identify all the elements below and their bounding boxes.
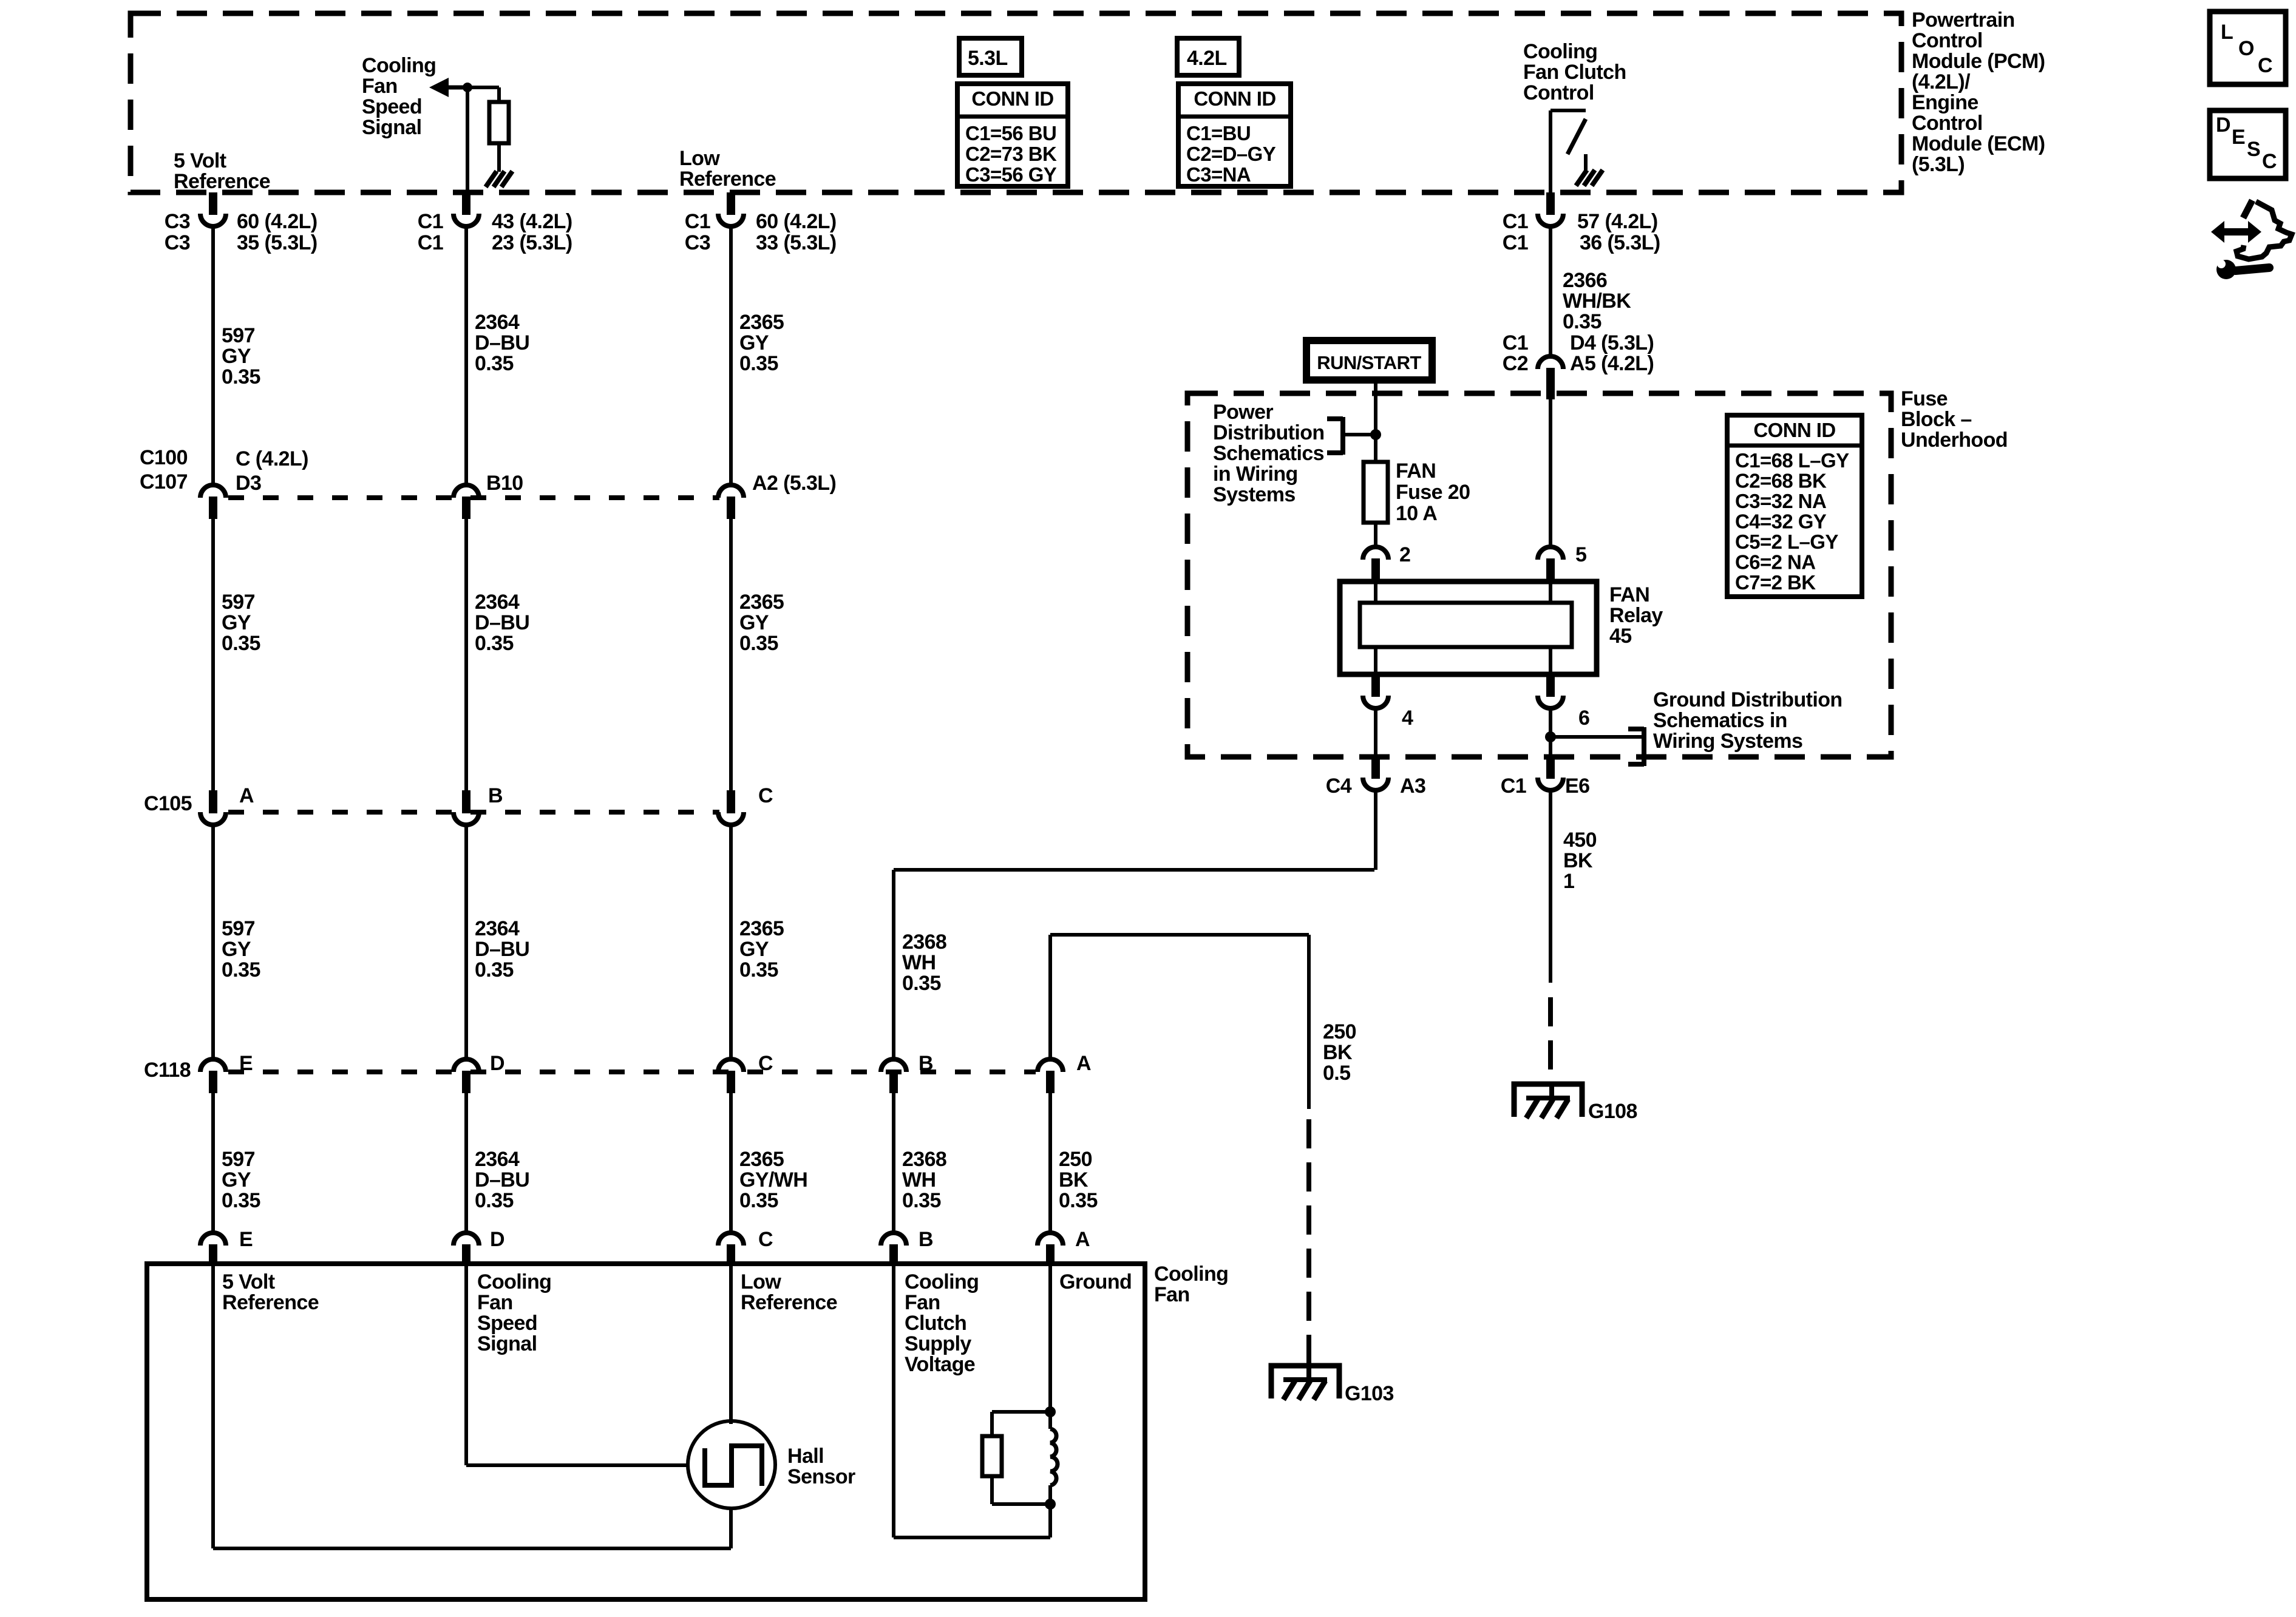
svg-text:Cooling: Cooling xyxy=(362,54,436,77)
wire 597 GY segment 3 xyxy=(211,825,215,1059)
5.3L tag box xyxy=(959,38,1022,75)
svg-text:2364: 2364 xyxy=(475,591,520,614)
svg-text:2365: 2365 xyxy=(739,591,784,614)
connector C1 pin E6 xyxy=(1546,757,1555,779)
connector C1/C3 (low ref at PCM) xyxy=(727,192,735,215)
resistor (pull-up) in PCM xyxy=(467,87,509,172)
svg-text:O: O xyxy=(2238,37,2254,60)
svg-text:Fan: Fan xyxy=(362,75,398,98)
svg-text:A5 (4.2L): A5 (4.2L) xyxy=(1570,352,1654,375)
svg-text:A2 (5.3L): A2 (5.3L) xyxy=(752,472,836,495)
labels C100 C107 C(4.2L) D3 xyxy=(140,446,308,495)
svg-text:C3=NA: C3=NA xyxy=(1186,163,1251,186)
svg-text:BK: BK xyxy=(1563,849,1593,872)
svg-text:WH/BK: WH/BK xyxy=(1563,290,1631,313)
svg-text:Reference: Reference xyxy=(741,1291,837,1314)
svg-text:2364: 2364 xyxy=(475,311,520,334)
wire label 2364 D-BU 0.35 (3) xyxy=(475,917,529,981)
svg-text:GY: GY xyxy=(739,611,769,634)
svg-text:Signal: Signal xyxy=(362,116,421,139)
svg-text:BK: BK xyxy=(1323,1041,1353,1064)
svg-text:C1: C1 xyxy=(418,210,443,233)
svg-text:0.35: 0.35 xyxy=(902,1189,941,1212)
wire 597 GY segment 1 xyxy=(211,227,215,484)
svg-text:D–BU: D–BU xyxy=(475,1168,529,1192)
label Hall Sensor xyxy=(787,1445,855,1488)
svg-text:Module (ECM): Module (ECM) xyxy=(1912,132,2045,155)
svg-text:GY/WH: GY/WH xyxy=(739,1168,807,1192)
label FAN Fuse 20 10 A xyxy=(1396,459,1470,525)
svg-text:5: 5 xyxy=(1575,543,1586,566)
svg-text:G103: G103 xyxy=(1345,1382,1394,1405)
svg-text:Fuse: Fuse xyxy=(1901,387,1948,410)
svg-text:GY: GY xyxy=(222,611,251,634)
svg-text:C3=32 NA: C3=32 NA xyxy=(1735,490,1826,512)
labels C4 A3 xyxy=(1326,775,1426,798)
hall sensor xyxy=(688,1421,775,1508)
wire label 2364 D-BU 0.35 (4) xyxy=(475,1148,529,1212)
svg-text:45: 45 xyxy=(1609,625,1632,648)
svg-text:C1: C1 xyxy=(1503,331,1528,354)
svg-text:C1: C1 xyxy=(418,231,443,254)
label Ground Distribution Schematics in Wiring Systems xyxy=(1653,688,1843,753)
svg-text:WH: WH xyxy=(902,951,936,974)
connector C3 (5V ref at PCM) xyxy=(209,192,217,215)
svg-text:2368: 2368 xyxy=(902,1148,946,1171)
connector cooling fan pin A xyxy=(1038,1233,1063,1246)
svg-text:C1=56 BU: C1=56 BU xyxy=(965,122,1056,144)
label Cooling Fan Speed Signal (fan) xyxy=(477,1270,551,1355)
labels C105 A xyxy=(144,784,254,815)
svg-text:4: 4 xyxy=(1402,707,1413,730)
wire 2365 segment 2 xyxy=(729,518,733,792)
svg-text:C1: C1 xyxy=(685,210,710,233)
wire hall sensor to 5V return xyxy=(729,1508,733,1548)
connector C118 pin A xyxy=(1038,1059,1063,1072)
wire label 2368 WH 0.35 (upper) xyxy=(902,931,946,995)
svg-text:0.5: 0.5 xyxy=(1323,1062,1350,1085)
svg-text:Powertrain: Powertrain xyxy=(1912,8,2015,32)
Fuse Block - Underhood dashed box xyxy=(1187,393,1891,757)
wire label 2364 D-BU 0.35 (1) xyxy=(475,311,529,375)
svg-text:Fan: Fan xyxy=(1154,1283,1190,1306)
svg-text:Cooling: Cooling xyxy=(905,1270,979,1293)
svg-text:GY: GY xyxy=(222,1168,251,1192)
connector cooling fan pin C xyxy=(718,1233,744,1246)
svg-text:Control: Control xyxy=(1912,29,1983,52)
svg-text:Reference: Reference xyxy=(222,1291,319,1314)
wire 2364 D-BU segment 1 xyxy=(464,227,468,484)
svg-text:C7=2 BK: C7=2 BK xyxy=(1735,571,1816,594)
connector relay pin 4 xyxy=(1371,674,1380,697)
svg-text:BK: BK xyxy=(1059,1168,1089,1192)
svg-text:A: A xyxy=(1076,1052,1091,1075)
DESC legend box xyxy=(2210,110,2286,178)
svg-text:Ground Distribution: Ground Distribution xyxy=(1653,688,1843,711)
svg-text:Signal: Signal xyxy=(477,1332,537,1355)
connector relay pin 6 xyxy=(1546,674,1555,697)
4.2L tag box xyxy=(1177,38,1239,75)
connector C105 pin C xyxy=(727,790,735,813)
wire relay pin 6 down xyxy=(1549,709,1552,764)
wire 2365 segment 3 xyxy=(729,825,733,1059)
junction dot clutch bottom xyxy=(1045,1499,1056,1510)
svg-text:Reference: Reference xyxy=(174,170,270,193)
svg-text:Distribution: Distribution xyxy=(1213,421,1325,444)
junction dot (power distribution tap) xyxy=(1370,429,1381,440)
svg-text:C105: C105 xyxy=(144,792,192,815)
power distribution bracket xyxy=(1327,417,1376,455)
label 5 Volt Reference (fan) xyxy=(222,1270,319,1314)
wire A3 down to corner xyxy=(1374,791,1377,870)
svg-text:6: 6 xyxy=(1578,707,1589,730)
wire RUN/START to fuse xyxy=(1374,384,1377,462)
label Power Distribution Schematics in Wiring Systems xyxy=(1213,401,1325,506)
svg-text:C1: C1 xyxy=(1503,210,1528,233)
svg-text:C: C xyxy=(758,784,773,807)
label Low Reference (PCM) xyxy=(679,147,776,191)
wire clutch bottom to supply return xyxy=(1048,1504,1052,1537)
svg-text:A: A xyxy=(239,784,254,807)
connector C118 pin D xyxy=(453,1059,479,1072)
svg-text:Speed: Speed xyxy=(362,95,422,118)
pin labels C3/C3 60(4.2L) 35(5.3L) xyxy=(165,210,318,254)
wire label 597 GY 0.35 (4) xyxy=(222,1148,260,1212)
svg-text:GY: GY xyxy=(739,331,769,354)
connector C100 pin B10 xyxy=(453,485,479,498)
wire 450 BK to G108 xyxy=(1549,791,1552,1070)
label Fuse Block - Underhood xyxy=(1901,387,2008,452)
svg-text:C6=2 NA: C6=2 NA xyxy=(1735,551,1815,574)
svg-text:D: D xyxy=(2216,114,2230,137)
svg-text:C2: C2 xyxy=(1503,352,1528,375)
svg-text:597: 597 xyxy=(222,917,255,940)
svg-text:2: 2 xyxy=(1399,543,1410,566)
svg-text:WH: WH xyxy=(902,1168,936,1192)
svg-text:57 (4.2L): 57 (4.2L) xyxy=(1577,210,1658,233)
wire 597 GY segment 2 xyxy=(211,518,215,792)
junction dot (speed signal node) xyxy=(463,83,472,92)
svg-text:0.35: 0.35 xyxy=(475,352,514,375)
svg-text:250: 250 xyxy=(1059,1148,1092,1171)
label 5 Volt Reference (PCM) xyxy=(174,149,270,193)
wire speed signal inside fan box xyxy=(466,1266,690,1465)
svg-text:L: L xyxy=(2221,21,2233,44)
svg-text:D–BU: D–BU xyxy=(475,938,529,961)
svg-text:0.35: 0.35 xyxy=(1563,310,1601,333)
wire label 597 GY 0.35 (2) xyxy=(222,591,260,655)
svg-text:B10: B10 xyxy=(486,472,523,495)
connector C100/C107 pin C/D3 xyxy=(200,485,226,498)
svg-text:B: B xyxy=(919,1228,933,1251)
svg-text:S: S xyxy=(2247,138,2260,161)
svg-text:C2=D–GY: C2=D–GY xyxy=(1186,143,1276,165)
svg-text:2365: 2365 xyxy=(739,1148,784,1171)
connector C118 pin B xyxy=(881,1059,906,1072)
clutch resistor branch xyxy=(982,1412,1050,1504)
cooling fan speed signal arrow xyxy=(429,78,467,97)
svg-text:Block –: Block – xyxy=(1901,408,1972,431)
svg-text:0.35: 0.35 xyxy=(222,958,260,981)
svg-text:597: 597 xyxy=(222,324,255,347)
svg-text:C2=73 BK: C2=73 BK xyxy=(965,143,1057,165)
connector relay pin 2 xyxy=(1363,547,1388,560)
svg-text:Power: Power xyxy=(1213,401,1273,424)
wire label 2365 GY 0.35 (3) xyxy=(739,917,784,981)
svg-text:Low: Low xyxy=(679,147,720,170)
svg-text:in Wiring: in Wiring xyxy=(1213,463,1298,486)
wire 5V ref inside fan box xyxy=(213,1266,731,1548)
ground distribution bracket xyxy=(1550,727,1644,766)
svg-text:23 (5.3L): 23 (5.3L) xyxy=(492,231,572,254)
svg-text:60 (4.2L): 60 (4.2L) xyxy=(237,210,318,233)
svg-text:Systems: Systems xyxy=(1213,483,1296,506)
junction dot (ground distribution tap) xyxy=(1545,731,1556,742)
wire label 597 GY 0.35 (3) xyxy=(222,917,260,981)
labels C1/C2 D4(5.3L) A5(4.2L) xyxy=(1503,331,1654,375)
cooling fan component box xyxy=(147,1264,1145,1599)
svg-text:D3: D3 xyxy=(236,472,261,495)
svg-text:Schematics in: Schematics in xyxy=(1653,709,1787,732)
svg-text:Schematics: Schematics xyxy=(1213,442,1324,465)
svg-text:GY: GY xyxy=(739,938,769,961)
svg-text:5.3L: 5.3L xyxy=(968,47,1008,70)
svg-text:E: E xyxy=(239,1228,253,1251)
connector C1 (clutch control at PCM) xyxy=(1546,192,1555,215)
svg-text:B: B xyxy=(919,1052,933,1075)
svg-text:Fuse 20: Fuse 20 xyxy=(1396,481,1470,504)
svg-text:0.35: 0.35 xyxy=(739,352,778,375)
svg-text:D4 (5.3L): D4 (5.3L) xyxy=(1570,331,1654,354)
svg-text:C4=32 GY: C4=32 GY xyxy=(1735,510,1827,533)
svg-text:C3: C3 xyxy=(165,231,190,254)
svg-text:0.35: 0.35 xyxy=(475,958,514,981)
ground G108 xyxy=(1514,1084,1582,1117)
label Low Reference (fan) xyxy=(741,1270,837,1314)
svg-text:2365: 2365 xyxy=(739,917,784,940)
svg-text:597: 597 xyxy=(222,591,255,614)
svg-text:1: 1 xyxy=(1563,870,1574,893)
wire relay pin 4 down xyxy=(1374,709,1377,764)
label FAN Relay 45 xyxy=(1609,583,1663,648)
svg-text:43 (4.2L): 43 (4.2L) xyxy=(492,210,572,233)
connector C105 pin A xyxy=(209,790,217,813)
svg-text:C3: C3 xyxy=(685,231,710,254)
svg-text:Ground: Ground xyxy=(1059,1270,1132,1293)
svg-text:Low: Low xyxy=(741,1270,781,1293)
wire 250 BK 0.5 to G103 xyxy=(1307,935,1311,1366)
svg-text:C1=68 L–GY: C1=68 L–GY xyxy=(1735,449,1849,472)
wire label 250 BK 0.5 xyxy=(1323,1020,1356,1085)
svg-text:Supply: Supply xyxy=(905,1332,971,1355)
wire label 2365 GY 0.35 (1) xyxy=(739,311,784,375)
svg-text:2364: 2364 xyxy=(475,1148,520,1171)
wire 2364 segment 4 xyxy=(464,1093,468,1232)
connector C100 pin A2 xyxy=(718,485,744,498)
svg-text:C4: C4 xyxy=(1326,775,1352,798)
svg-text:D: D xyxy=(490,1052,504,1075)
wire label 2366 WH/BK 0.35 xyxy=(1563,269,1631,333)
FAN relay 45 box xyxy=(1340,581,1597,674)
svg-text:Wiring Systems: Wiring Systems xyxy=(1653,730,1802,753)
junction dot clutch top xyxy=(1045,1406,1056,1417)
PCM/ECM module dashed box xyxy=(131,13,1901,192)
svg-text:5 Volt: 5 Volt xyxy=(174,149,226,172)
svg-text:0.35: 0.35 xyxy=(475,632,514,655)
LOC legend box xyxy=(2210,12,2286,84)
svg-text:C100: C100 xyxy=(140,446,188,469)
svg-text:Fan Clutch: Fan Clutch xyxy=(1523,61,1626,84)
wire clutch-control column in fuse block xyxy=(1549,399,1552,546)
wire 2365 GY/WH segment 4 xyxy=(729,1093,733,1232)
wire label 250 BK 0.35 xyxy=(1059,1148,1098,1212)
svg-text:2365: 2365 xyxy=(739,311,784,334)
svg-text:2366: 2366 xyxy=(1563,269,1607,292)
svg-text:0.35: 0.35 xyxy=(739,958,778,981)
svg-text:G108: G108 xyxy=(1588,1100,1637,1123)
svg-text:60 (4.2L): 60 (4.2L) xyxy=(756,210,837,233)
svg-text:Speed: Speed xyxy=(477,1312,537,1335)
CONN ID table (fuse block underhood) xyxy=(1727,415,1862,597)
dashed connector line C118 xyxy=(228,1070,1036,1074)
chassis ground (PCM resistor) xyxy=(486,171,497,187)
svg-text:GY: GY xyxy=(222,938,251,961)
switch (cooling fan clutch control driver) xyxy=(1550,110,1586,170)
dashed connector line C100/C107 xyxy=(228,495,719,500)
svg-text:C2=68 BK: C2=68 BK xyxy=(1735,470,1827,492)
fuse FAN Fuse 20 10A xyxy=(1364,462,1388,523)
svg-text:GY: GY xyxy=(222,345,251,368)
connector C105 pin B xyxy=(462,790,470,813)
svg-text:D–BU: D–BU xyxy=(475,611,529,634)
svg-text:Cooling: Cooling xyxy=(1523,40,1597,63)
svg-text:CONN ID: CONN ID xyxy=(1753,419,1835,441)
pin labels C1/C1 57(4.2L) 36(5.3L) xyxy=(1503,210,1660,254)
wire 2368 WH segment 2 xyxy=(892,1093,895,1232)
svg-text:E: E xyxy=(2232,126,2245,149)
svg-text:(4.2L)/: (4.2L)/ xyxy=(1912,70,1971,93)
connector cooling fan pin D xyxy=(453,1233,479,1246)
svg-text:Hall: Hall xyxy=(787,1445,824,1468)
wire clutch control to box edge xyxy=(1549,110,1552,192)
connector relay pin 5 xyxy=(1538,547,1563,560)
svg-text:C (4.2L): C (4.2L) xyxy=(236,447,308,470)
connector cooling fan pin E xyxy=(200,1233,226,1246)
svg-text:C107: C107 xyxy=(140,470,188,493)
svg-text:CONN ID: CONN ID xyxy=(971,87,1053,110)
wire 250 BK segment 2 xyxy=(1048,1093,1052,1232)
wire label 2365 GY 0.35 (2) xyxy=(739,591,784,655)
svg-text:C: C xyxy=(758,1052,773,1075)
wire ground inside fan box xyxy=(1048,1266,1052,1412)
svg-text:10 A: 10 A xyxy=(1396,502,1437,525)
wire speed-signal node to box edge xyxy=(466,87,469,192)
svg-text:Control: Control xyxy=(1912,112,1983,135)
svg-text:Clutch: Clutch xyxy=(905,1312,966,1335)
CONN ID table (5.3L) xyxy=(957,84,1068,186)
svg-text:0.35: 0.35 xyxy=(222,1189,260,1212)
svg-text:597: 597 xyxy=(222,1148,255,1171)
svg-text:C1: C1 xyxy=(1501,775,1526,798)
wire label 2368 WH 0.35 (lower) xyxy=(902,1148,946,1212)
svg-text:Relay: Relay xyxy=(1609,604,1663,627)
wire 2365 GY segment 1 xyxy=(729,227,733,484)
CONN ID table (4.2L) xyxy=(1178,84,1291,186)
wire 597 GY segment 4 xyxy=(211,1093,215,1232)
connector C4 pin A3 xyxy=(1371,757,1380,779)
clutch coil xyxy=(1050,1412,1058,1504)
svg-text:A3: A3 xyxy=(1400,775,1425,798)
svg-text:RUN/START: RUN/START xyxy=(1317,352,1421,373)
wire label 2364 D-BU 0.35 (2) xyxy=(475,591,529,655)
svg-text:FAN: FAN xyxy=(1396,459,1436,483)
svg-text:Engine: Engine xyxy=(1912,91,1978,114)
svg-text:0.35: 0.35 xyxy=(222,632,260,655)
wire 2364 segment 3 xyxy=(464,825,468,1059)
label Powertrain Control Module (PCM)/(4.2L)/Engine Control Module (ECM)(5.3L) xyxy=(1912,8,2045,176)
wire 2364 segment 2 xyxy=(464,518,468,792)
svg-text:C3: C3 xyxy=(165,210,190,233)
RUN/START feed box xyxy=(1306,341,1432,380)
svg-text:CONN ID: CONN ID xyxy=(1194,87,1275,110)
svg-text:C118: C118 xyxy=(144,1059,191,1082)
wire label 597 GY 0.35 (1) xyxy=(222,324,260,388)
wire low ref inside fan box xyxy=(729,1266,733,1424)
svg-text:2368: 2368 xyxy=(902,931,946,954)
wire 2366 WH/BK clutch control xyxy=(1549,228,1552,354)
wire 250 BK from relay ground node xyxy=(1050,935,1309,1059)
svg-text:Cooling: Cooling xyxy=(477,1270,551,1293)
svg-text:2364: 2364 xyxy=(475,917,520,940)
svg-text:D–BU: D–BU xyxy=(475,331,529,354)
svg-text:Voltage: Voltage xyxy=(905,1353,975,1376)
svg-text:36 (5.3L): 36 (5.3L) xyxy=(1580,231,1660,254)
labels C118 E xyxy=(144,1052,253,1082)
dashed connector line C105 xyxy=(228,810,719,815)
wire 2368 WH from fan relay pin A3 xyxy=(894,870,1374,1059)
ground G103 xyxy=(1271,1366,1339,1398)
connector C118 pin C xyxy=(718,1059,744,1072)
svg-text:C1=BU: C1=BU xyxy=(1186,122,1251,144)
label Cooling Fan Speed Signal (PCM) xyxy=(362,54,436,139)
svg-text:C: C xyxy=(758,1228,773,1251)
wire clutch supply inside fan box xyxy=(894,1266,1050,1537)
connector C1/C2 pins D4/A5 xyxy=(1538,356,1563,369)
svg-text:Fan: Fan xyxy=(477,1291,513,1314)
label Cooling Fan Clutch Control (PCM) xyxy=(1523,40,1626,104)
label Cooling Fan Clutch Supply Voltage xyxy=(905,1270,979,1376)
svg-text:Control: Control xyxy=(1523,81,1594,104)
wire fuse to relay pin 2 xyxy=(1374,523,1377,546)
svg-text:0.35: 0.35 xyxy=(902,972,941,995)
svg-text:Underhood: Underhood xyxy=(1901,429,2008,452)
svg-text:B: B xyxy=(488,784,503,807)
svg-text:Reference: Reference xyxy=(679,168,776,191)
chassis ground (clutch control) xyxy=(1576,170,1587,186)
svg-text:C5=2 L–GY: C5=2 L–GY xyxy=(1735,531,1838,553)
wire label 450 BK 1 xyxy=(1563,829,1597,893)
svg-text:4.2L: 4.2L xyxy=(1187,47,1227,70)
svg-text:C: C xyxy=(2262,150,2277,173)
label Cooling Fan xyxy=(1154,1263,1228,1306)
svg-text:0.35: 0.35 xyxy=(739,632,778,655)
svg-text:Sensor: Sensor xyxy=(787,1465,855,1488)
svg-text:35 (5.3L): 35 (5.3L) xyxy=(237,231,318,254)
double-arrow wrench icon xyxy=(2211,200,2292,279)
pin labels C1/C1 43(4.2L) 23(5.3L) xyxy=(418,210,572,254)
svg-text:C: C xyxy=(2258,54,2272,77)
labels C1 E6 xyxy=(1501,775,1590,798)
